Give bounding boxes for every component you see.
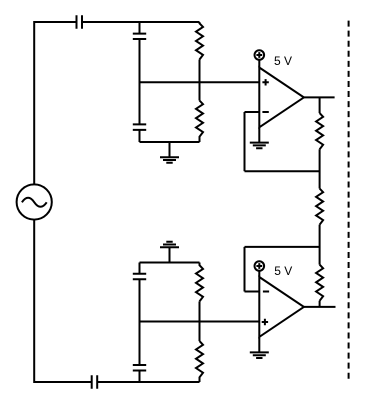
wire left rail top + top wire to C1	[34, 22, 76, 185]
op-amp U2	[259, 277, 304, 337]
op-amp U1 minus input label	[262, 111, 268, 113]
resistor R7	[196, 341, 203, 382]
wire U2 output	[304, 306, 336, 308]
wire U1 output	[304, 96, 335, 98]
wire U1 minus input	[245, 111, 260, 113]
resistor R5	[316, 265, 323, 301]
resistor R4	[316, 189, 323, 225]
capacitor C3	[133, 34, 146, 39]
wire output to R3	[319, 97, 321, 113]
wire middle node to op-amp U1 + input	[140, 81, 260, 83]
wire R4 to R5	[319, 225, 321, 265]
op-amp U1	[259, 68, 304, 128]
wire bottom, C2 to R7	[97, 381, 199, 383]
capacitor C4	[133, 124, 146, 129]
op-amp U1 plus input label	[262, 79, 268, 85]
wire R1 to R2	[199, 60, 201, 101]
wire feedback top (U2)	[245, 246, 320, 248]
wire R3 to R4	[319, 149, 321, 188]
wire middle node to op-amp U2 + input	[140, 321, 260, 323]
wire C3 to C4	[139, 39, 141, 124]
capacitor C1 (series input, top)	[77, 15, 83, 28]
power supply P1 (5V)	[254, 50, 264, 60]
wire feedback left (U2)	[244, 247, 246, 292]
dashed boundary line	[348, 21, 350, 379]
resistor R1	[196, 22, 203, 60]
wire cap branch stub (bottom network)	[139, 263, 141, 274]
capacitor C6	[133, 365, 146, 371]
ground (op-amp U2)	[250, 337, 269, 358]
svg-text:5 V: 5 V	[274, 264, 292, 278]
wire top, C1 to R1	[82, 21, 200, 23]
resistor R2	[196, 101, 203, 143]
power supply P2 (5V)	[254, 261, 264, 271]
wire C4 to bottom wire	[139, 130, 141, 142]
ground (top network)	[160, 142, 179, 163]
resistor R3	[316, 113, 323, 149]
op-amp U2 minus input label	[263, 291, 269, 293]
wire cap branch stub (top network)	[139, 22, 141, 34]
ground (op-amp U1)	[250, 127, 269, 148]
resistor R6	[196, 263, 203, 302]
wire feedback left (U1)	[244, 112, 246, 171]
op-amp U2 plus input label	[262, 319, 268, 325]
voltage source V1	[17, 184, 52, 219]
capacitor C5	[133, 274, 146, 280]
wire top of bottom network	[140, 262, 200, 264]
wire U2 minus input	[245, 291, 260, 293]
capacitor C2 (series input, bottom)	[92, 375, 98, 388]
wire left rail bottom + bottom wire to C2	[34, 220, 91, 382]
wire C5 to C6	[139, 279, 141, 365]
wire C6 to bottom wire	[139, 371, 141, 383]
wire R5 to U2 output	[319, 301, 321, 307]
ground (bottom network, inverted)	[160, 242, 179, 263]
svg-text:5 V: 5 V	[274, 54, 292, 68]
wire R6 to R7	[199, 301, 201, 341]
wire bottom of top network	[140, 141, 200, 143]
wire feedback bottom (U1)	[245, 170, 320, 172]
